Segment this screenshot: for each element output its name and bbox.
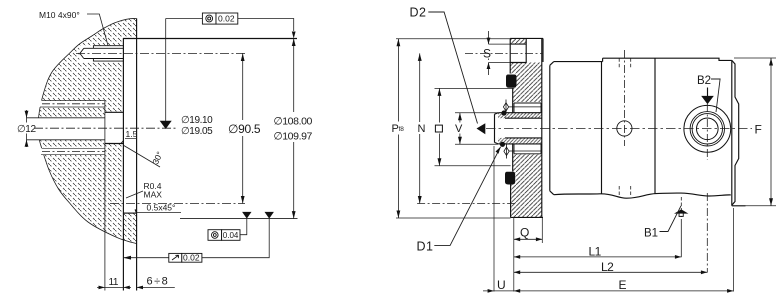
dimension S — [489, 44, 511, 62]
svg-text:N: N — [418, 123, 426, 135]
svg-text:∅19.05: ∅19.05 — [181, 126, 213, 137]
body/cover joint — [654, 58, 656, 193]
flange plate hatched zones — [510, 39, 542, 218]
pilot hole outline — [105, 112, 124, 143]
dimension F — [734, 57, 776, 59]
D2 black arrow — [477, 123, 486, 134]
face below top seal — [512, 88, 514, 113]
svg-text:D2: D2 — [410, 6, 427, 20]
white cutout: upper bolt-circle band — [39, 101, 105, 107]
rear bottom edge — [732, 205, 746, 207]
dimension P f8 — [396, 38, 510, 40]
centerline: M10 hole / BC top — [76, 52, 245, 54]
front cover top edge — [554, 61, 603, 63]
B2 port axis — [706, 104, 708, 273]
dimension phi19.10/19.05 leader with solid triangle — [165, 19, 167, 122]
boss left face — [509, 38, 511, 73]
drill cone — [80, 48, 84, 58]
svg-text:V: V — [455, 123, 463, 135]
dimension square-symbol — [435, 87, 513, 89]
rear cover face — [732, 60, 739, 205]
dimension phi90.5 — [242, 53, 244, 203]
sleeve strips hatched — [498, 113, 542, 119]
svg-text:B2: B2 — [697, 75, 711, 87]
svg-text:L1: L1 — [589, 245, 602, 259]
centerline: upper band — [42, 103, 105, 105]
spigot chamfer 0.5x45 — [135, 209, 137, 213]
flange bottom edge — [511, 216, 543, 218]
svg-text:U: U — [497, 278, 506, 292]
svg-text:∅109.97: ∅109.97 — [274, 131, 313, 143]
svg-text:Q: Q — [520, 226, 529, 240]
D1 port pocket — [506, 144, 541, 153]
svg-text:MAX: MAX — [144, 190, 163, 200]
svg-text:6÷8: 6÷8 — [147, 276, 170, 288]
front cover joint — [601, 62, 603, 194]
boss top edge — [510, 37, 543, 39]
mounting face line V2 — [122, 39, 124, 291]
dimension N — [419, 53, 421, 203]
centerline: BC bottom — [110, 203, 245, 205]
dimension phi12 — [26, 110, 28, 147]
svg-text:∅90.5: ∅90.5 — [228, 122, 261, 136]
dimension phi108.00/109.97 — [293, 39, 295, 219]
small hole circle — [617, 121, 632, 136]
rear right edge — [731, 60, 733, 205]
svg-text:0.04: 0.04 — [223, 231, 239, 240]
svg-text:M10 4x90°: M10 4x90° — [39, 10, 80, 20]
white cutout: shaft bore — [26, 118, 105, 140]
M10 tapped hole outline — [80, 46, 124, 61]
white cutout: M10 tapped hole — [79, 45, 124, 61]
flange outline — [510, 38, 543, 217]
shaft sleeve — [495, 113, 542, 144]
top port seal (black) — [506, 75, 517, 88]
FCF circular runout 0.02 (bottom) — [123, 212, 274, 263]
flange section hatched region (freehand break arc boundary) — [38, 18, 137, 243]
svg-text:E: E — [619, 278, 627, 292]
D2 port target diamond — [503, 103, 508, 111]
svg-text:11: 11 — [109, 277, 119, 288]
bolt-circle band boundary lines — [40, 101, 105, 155]
svg-text:1.5: 1.5 — [126, 129, 138, 139]
port axes dash-dot — [465, 52, 543, 54]
dimension V — [455, 113, 498, 145]
dimension Q — [513, 217, 515, 291]
U extension (sleeve face) — [493, 146, 495, 292]
D2 port pocket — [506, 103, 541, 112]
mounting hole axis — [623, 50, 625, 146]
flange OD top edge H1 — [123, 38, 297, 40]
svg-text:B1: B1 — [644, 228, 658, 240]
bottom face — [510, 185, 512, 218]
dimension E and U — [483, 290, 734, 292]
svg-text:D1: D1 — [417, 240, 434, 254]
dimension L2 — [514, 271, 708, 273]
svg-text:L2: L2 — [601, 260, 614, 274]
mounting hole hidden lines — [619, 58, 631, 69]
flange back face — [541, 38, 543, 217]
dimension L1 — [514, 256, 682, 258]
port hole top S — [510, 38, 526, 62]
thread major outline — [93, 46, 123, 61]
flange OD bottom extension line H2 — [180, 218, 298, 220]
svg-text:0.5x45°: 0.5x45° — [147, 203, 176, 213]
pump body outline — [550, 58, 746, 206]
svg-text:∅19.10: ∅19.10 — [181, 115, 213, 126]
B1 port symbol (open arrow) — [674, 209, 688, 217]
B2 port circles — [684, 105, 731, 152]
minor dia lines — [84, 48, 124, 58]
main centerline right view — [486, 127, 753, 129]
step up — [602, 58, 604, 61]
svg-text:∅12: ∅12 — [17, 124, 36, 135]
svg-text:0.02: 0.02 — [218, 14, 235, 24]
centerline: lower band — [42, 151, 105, 153]
svg-text:F: F — [755, 123, 762, 137]
main top edge — [603, 58, 732, 60]
E right extension — [733, 208, 735, 292]
break arc outline — [38, 18, 137, 243]
FCF concentricity 0.04 (middle) with datum triangle — [208, 212, 252, 240]
FCF concentricity 0.02 (top) — [166, 13, 296, 39]
bottom wavy break line — [554, 193, 731, 198]
white cutout: pilot hole 19.05 — [105, 112, 124, 143]
top seal dot — [501, 110, 506, 115]
front face — [549, 65, 551, 191]
shaft bore lines — [27, 118, 105, 140]
face between sleeve and bottom seal — [512, 143, 514, 171]
spigot front face line V3 — [136, 18, 138, 290]
svg-text:0.02: 0.02 — [183, 253, 200, 263]
bottom port seal (black) — [505, 172, 515, 185]
white cutout: lower bolt-circle band — [39, 148, 105, 154]
svg-text:∅108.00: ∅108.00 — [274, 116, 313, 128]
pilot depth line V1 — [104, 100, 106, 290]
bottom seal dot — [500, 142, 505, 147]
svg-text:f8: f8 — [399, 126, 405, 133]
B1 port axis — [680, 197, 682, 222]
centerline: main axis — [34, 127, 176, 129]
D1 port target diamond — [504, 147, 509, 155]
label 30deg rotated with leader — [124, 146, 160, 168]
pilot mouth chamfer 30deg — [121, 141, 124, 144]
spigot bottom edge H3 — [123, 212, 136, 214]
